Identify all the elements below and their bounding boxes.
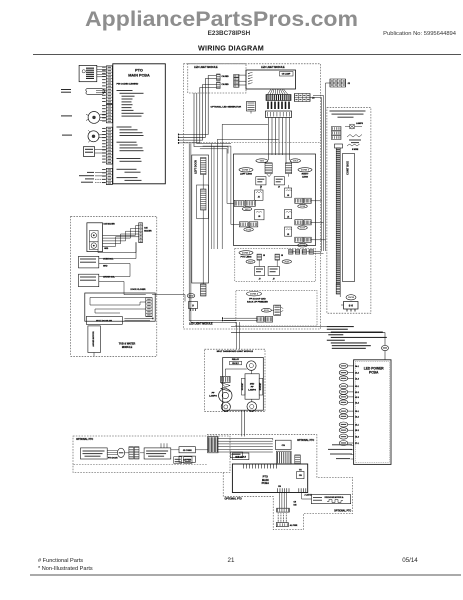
wires exiting right to led power pcba <box>236 320 321 322</box>
svg-text:J7: J7 <box>278 187 280 189</box>
pin marks <box>268 102 289 110</box>
connector pair <box>129 447 134 459</box>
svg-text:CN RLY: CN RLY <box>232 363 240 365</box>
svg-text:MODULE: MODULE <box>122 346 133 349</box>
svg-text:J7-1: J7-1 <box>355 443 359 445</box>
svg-text:PTO: PTO <box>135 68 143 72</box>
svg-text:LED LIGHT MODULE: LED LIGHT MODULE <box>261 66 285 69</box>
svg-text:GRD: GRD <box>104 248 109 250</box>
left pair small boxes <box>174 457 182 464</box>
module exit wires <box>152 295 185 302</box>
ice maker connector strip <box>139 223 143 243</box>
svg-text:J5: J5 <box>258 197 260 199</box>
vertical wire bundle down from long rect <box>268 118 270 161</box>
svg-text:LAMPS: LAMPS <box>248 389 256 392</box>
mult door sw box <box>86 317 122 325</box>
cont box tall rect <box>343 154 355 282</box>
svg-text:Publication No: 5995644894: Publication No: 5995644894 <box>383 31 457 37</box>
svg-text:SOCKET: SOCKET <box>260 382 262 390</box>
optional pto dashed box right <box>207 435 353 530</box>
zone4 west wires <box>224 317 257 319</box>
svg-text:CONT BOX: CONT BOX <box>346 161 350 175</box>
svg-text:9 6: 9 6 <box>349 304 354 308</box>
zone2 dashed box <box>235 248 316 281</box>
svg-text:21: 21 <box>228 557 235 564</box>
pto door interface board assembly <box>81 448 108 459</box>
bottom edge connectors of pcba <box>278 488 289 492</box>
svg-text:PTO LENS: PTO LENS <box>241 257 252 259</box>
lamp switch 2 <box>88 131 99 142</box>
svg-text:1018: 1018 <box>300 245 306 247</box>
svg-text:J5: J5 <box>281 255 283 257</box>
svg-text:LAMPS: LAMPS <box>209 395 217 398</box>
solenoid box 2 <box>79 274 99 287</box>
svg-text:J3-2: J3-2 <box>355 416 359 418</box>
dense connector top <box>208 436 218 452</box>
zone2 right connector row <box>289 250 294 255</box>
svg-text:OPTIONAL PTO: OPTIONAL PTO <box>334 510 351 513</box>
svg-text:OPTIONAL PTO: OPTIONAL PTO <box>76 438 93 441</box>
svg-text:J2-2: J2-2 <box>355 392 359 394</box>
svg-text:J2 CONN: J2 CONN <box>183 450 192 452</box>
svg-text:2ND: 2ND <box>250 384 255 386</box>
wires down to dashboard <box>236 322 238 349</box>
svg-text:J2: J2 <box>312 98 315 100</box>
wires from left module down <box>179 76 217 135</box>
ff lamp left stack <box>221 376 231 382</box>
svg-text:J2-3: J2-3 <box>355 397 359 399</box>
cable to oval <box>107 450 117 452</box>
svg-text:ICE DOOR MOTOR &: ICE DOOR MOTOR & <box>325 497 344 499</box>
svg-text:J5: J5 <box>258 216 260 218</box>
svg-text:2023: 2023 <box>284 262 290 264</box>
svg-text:J4-3: J4-3 <box>355 377 359 380</box>
svg-text:LED LIGHT MODULE: LED LIGHT MODULE <box>194 66 218 69</box>
ground <box>187 294 195 298</box>
lamp switch 1 <box>88 112 100 124</box>
left door strip <box>192 155 209 283</box>
svg-text:ICE: ICE <box>294 505 298 507</box>
top connectors in lens box <box>256 159 268 163</box>
svg-text:CN: CN <box>278 486 281 488</box>
svg-text:AUGER MOTOR: AUGER MOTOR <box>92 331 95 347</box>
svg-text:J5-3: J5-3 <box>355 437 359 439</box>
svg-text:J4-1: J4-1 <box>355 365 359 368</box>
svg-text:TH: TH <box>299 469 302 471</box>
svg-text:J5: J5 <box>263 255 265 257</box>
svg-text:LEFT DOOR: LEFT DOOR <box>194 160 197 174</box>
svg-text:LED LIGHT MODULE: LED LIGHT MODULE <box>189 323 213 326</box>
svg-text:CN: CN <box>282 445 286 447</box>
wires below dashboard <box>241 410 243 436</box>
left mid comps <box>255 190 263 200</box>
svg-text:MAKER: MAKER <box>144 230 152 233</box>
svg-text:05/14: 05/14 <box>402 557 418 564</box>
svg-text:FF: FF <box>251 387 254 389</box>
dashboard inner box <box>223 358 264 411</box>
svg-text:PIN CODES LEGEND: PIN CODES LEGEND <box>117 84 139 86</box>
svg-text:DOOR CLOSER: DOOR CLOSER <box>131 289 146 291</box>
svg-text:MULT DOOR SW: MULT DOOR SW <box>96 321 112 323</box>
bottom stub wires <box>95 172 106 174</box>
svg-text:LEFT LENS: LEFT LENS <box>240 174 252 176</box>
zone1 label <box>239 168 253 172</box>
latch heater box <box>311 495 350 504</box>
dispenser zigzag <box>347 135 362 138</box>
wires from led pcba into bottom right <box>330 435 340 446</box>
bottom connector stack <box>277 508 290 512</box>
svg-text:SOCKET: SOCKET <box>242 382 244 390</box>
legend text <box>327 326 387 349</box>
svg-text:ZONE 2: ZONE 2 <box>242 253 251 255</box>
svg-text:5 WIRE: 5 WIRE <box>352 149 359 151</box>
zone4 dashed box <box>236 290 317 326</box>
svg-text:CN: CN <box>299 475 302 477</box>
svg-text:LENS: LENS <box>302 177 308 179</box>
cn th box <box>297 471 304 478</box>
svg-text:PCBA: PCBA <box>369 371 379 375</box>
svg-text:J5-1: J5-1 <box>355 425 359 427</box>
svg-text:CA RED: CA RED <box>222 75 230 78</box>
svg-text:* Non-Illustrated Parts: * Non-Illustrated Parts <box>38 566 93 572</box>
svg-text:ZONE 4: ZONE 4 <box>250 293 259 296</box>
svg-text:J5: J5 <box>287 217 289 219</box>
svg-text:J5: J5 <box>287 234 289 236</box>
svg-text:PCBA: PCBA <box>262 481 269 485</box>
svg-text:PTO DOOR: PTO DOOR <box>108 458 118 460</box>
wires along left inside edge of central box <box>189 144 236 321</box>
svg-text:BACK UP FREEZER: BACK UP FREEZER <box>247 300 268 303</box>
inner left wires <box>268 176 270 178</box>
svg-text:J2-4: J2-4 <box>355 401 360 404</box>
horizontal wire bundle <box>218 438 273 440</box>
svg-text:RIGHT: RIGHT <box>302 174 309 176</box>
central dashed box <box>184 64 321 329</box>
svg-text:J5: J5 <box>287 195 289 197</box>
zone4 bottom connector pair <box>257 316 264 322</box>
vertical wires x211-214 <box>211 144 213 250</box>
pcba bottom labels <box>328 444 352 459</box>
hatched connector under fan <box>266 95 291 101</box>
svg-text:J2: J2 <box>348 83 351 85</box>
PTO PCBA box <box>232 464 307 493</box>
svg-text:OPTIONAL LED GENERATOR: OPTIONAL LED GENERATOR <box>211 105 242 108</box>
svg-text:1016: 1016 <box>300 206 306 208</box>
bottom connector of cable <box>336 284 340 294</box>
svg-text:AL PWR: AL PWR <box>290 524 298 527</box>
cn lamp solid box <box>246 70 296 89</box>
small box under j2 <box>179 456 195 462</box>
optional pto dashed box left <box>73 436 230 473</box>
svg-text:2021: 2021 <box>248 262 254 264</box>
terminal strips left of pcba <box>106 66 112 104</box>
J1 connector <box>295 455 301 464</box>
led power pcba box <box>354 360 391 465</box>
zone2 comps <box>257 254 262 260</box>
svg-text:# Functional Parts: # Functional Parts <box>38 558 83 564</box>
svg-text:J4-2: J4-2 <box>355 372 359 375</box>
door switch box <box>83 147 94 157</box>
svg-text:CRUSH SOL: CRUSH SOL <box>103 277 116 279</box>
svg-text:OPTIONAL PTO: OPTIONAL PTO <box>297 439 314 442</box>
svg-text:OPTIONAL PTO: OPTIONAL PTO <box>225 497 242 500</box>
svg-text:J7: J7 <box>273 279 275 281</box>
svg-text:GRD: GRD <box>103 266 108 268</box>
svg-text:9: 9 <box>192 303 194 307</box>
wires from solenoids to right <box>135 242 137 246</box>
svg-text:1015: 1015 <box>246 229 252 231</box>
mid corner wires <box>222 124 268 249</box>
wires below pcba <box>279 493 281 509</box>
lamp symbol <box>350 124 355 129</box>
CN box above pcba <box>275 440 291 449</box>
wire y332 long <box>231 333 385 345</box>
ice maker box <box>87 223 103 252</box>
odb cable box <box>232 453 249 460</box>
svg-text:CA RED: CA RED <box>222 83 230 86</box>
pcba main box <box>113 64 166 184</box>
svg-text:J2-1: J2-1 <box>355 386 359 388</box>
svg-text:J7: J7 <box>259 279 261 281</box>
svg-text:RELAY: RELAY <box>232 358 240 361</box>
dashboard internal wires <box>225 369 247 376</box>
connection dashed box <box>327 108 371 314</box>
triangle fan <box>268 89 288 95</box>
svg-text:CN LAMP: CN LAMP <box>282 73 291 76</box>
ice maker cascade wires <box>103 226 139 236</box>
4B boxes <box>256 177 266 185</box>
connector stack <box>332 127 342 131</box>
wires connect optional boxes <box>243 454 245 456</box>
cable top connector <box>335 144 343 148</box>
svg-text:E23BC78IPSH: E23BC78IPSH <box>208 30 251 37</box>
svg-text:ICE MAKER: ICE MAKER <box>104 223 116 226</box>
svg-text:LAMPS: LAMPS <box>356 122 364 125</box>
svg-text:29CM: 29CM <box>348 297 354 299</box>
right door cable hatched ladder <box>336 148 340 284</box>
svg-text:1017: 1017 <box>300 228 306 230</box>
svg-text:WIRING DIAGRAM: WIRING DIAGRAM <box>198 44 264 53</box>
svg-text:CN: CN <box>294 502 297 504</box>
tub water module dashed box <box>71 216 157 356</box>
svg-text:J3-1: J3-1 <box>355 411 359 413</box>
svg-text:2911: 2911 <box>264 310 270 312</box>
svg-text:MAIN PCBA: MAIN PCBA <box>128 74 150 78</box>
29cm oval and plug <box>346 295 356 300</box>
rj45 box <box>230 452 242 458</box>
svg-text:FF SCOOP AND: FF SCOOP AND <box>249 297 266 300</box>
right lamp stack <box>247 361 257 371</box>
door sensor oval <box>86 88 105 94</box>
svg-text:1014: 1014 <box>293 160 299 163</box>
svg-text:ZONE 1: ZONE 1 <box>242 170 251 172</box>
svg-text:CUBE SOL: CUBE SOL <box>103 259 114 261</box>
right links to vertical wires <box>311 200 321 202</box>
svg-text:ICE: ICE <box>144 228 148 230</box>
J2 CONN box <box>179 447 195 453</box>
svg-text:MULT DASHBOARD LIGHT MODULE: MULT DASHBOARD LIGHT MODULE <box>217 350 254 353</box>
dashboard dashed box <box>205 349 265 412</box>
connector block top-left <box>79 65 97 81</box>
auger motor tall box <box>88 326 101 353</box>
svg-text:ZONE 3: ZONE 3 <box>301 170 310 172</box>
solenoid box 1 <box>79 256 99 268</box>
pto door interface pcb assembly <box>144 448 171 459</box>
svg-text:FF: FF <box>212 393 215 395</box>
svg-text:1011: 1011 <box>260 161 266 163</box>
long connector rect <box>266 111 292 118</box>
led light module left dashed box <box>188 64 246 93</box>
zone3 label <box>298 168 312 172</box>
J2 connector grids right <box>330 79 346 87</box>
wires mid horizontals <box>200 149 234 204</box>
right repeated groups <box>285 188 292 197</box>
lens assembly box <box>234 154 316 246</box>
svg-text:1013: 1013 <box>245 209 251 211</box>
svg-text:AppliancePartsPros.com: AppliancePartsPros.com <box>85 7 358 31</box>
svg-text:J5-2: J5-2 <box>355 430 359 432</box>
